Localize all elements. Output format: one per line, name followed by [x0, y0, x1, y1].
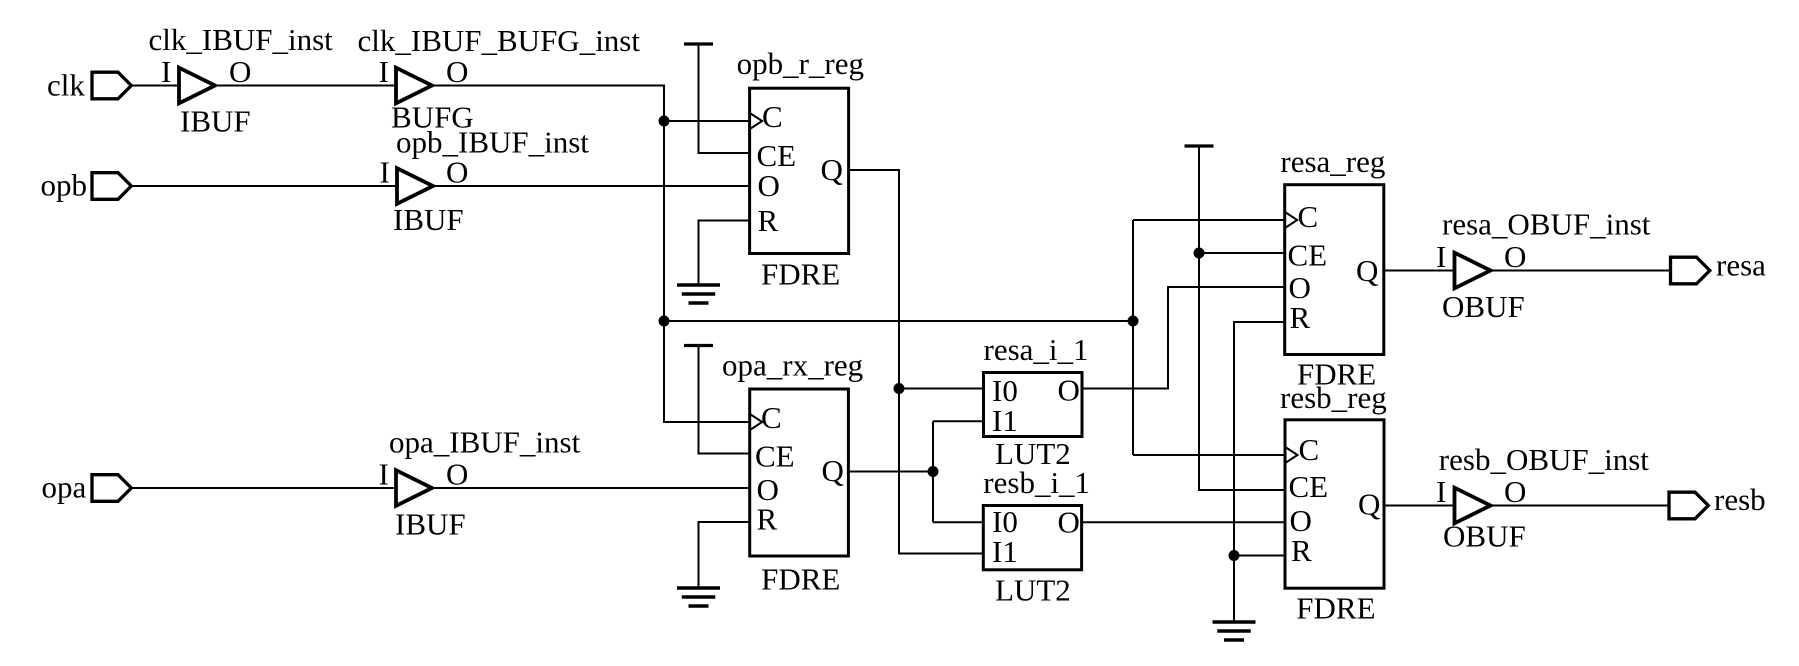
flip-flop resa_reg (FDRE) — [1280, 144, 1385, 392]
svg-text:O: O — [446, 457, 468, 492]
junction opb_r net — [894, 383, 905, 394]
wire opa_rx branch to resb_i_1 I0 — [933, 521, 983, 523]
svg-text:resa_reg: resa_reg — [1280, 144, 1385, 179]
svg-text:resa_OBUF_inst: resa_OBUF_inst — [1442, 207, 1651, 242]
output port resb — [1669, 482, 1766, 519]
svg-text:resa: resa — [1716, 248, 1766, 283]
svg-text:opa: opa — [42, 470, 87, 505]
svg-text:opa_IBUF_inst: opa_IBUF_inst — [389, 425, 581, 460]
svg-text:O: O — [1504, 239, 1526, 274]
svg-text:C: C — [762, 99, 783, 134]
svg-text:C: C — [1299, 432, 1320, 467]
svg-text:IBUF: IBUF — [393, 202, 464, 237]
svg-text:IBUF: IBUF — [180, 104, 251, 139]
svg-text:I: I — [161, 54, 171, 89]
svg-text:clk_IBUF_BUFG_inst: clk_IBUF_BUFG_inst — [358, 23, 641, 58]
svg-text:opb_r_reg: opb_r_reg — [737, 46, 864, 81]
input port opa — [42, 470, 132, 505]
svg-text:I: I — [379, 54, 389, 89]
wire clk_IBUF_BUFG net trunk — [432, 86, 750, 423]
svg-text:O: O — [229, 54, 251, 89]
ground for opa_rx_reg R — [677, 522, 750, 606]
svg-text:R: R — [1291, 533, 1312, 568]
LUT resb_i_1 (LUT2) — [983, 465, 1090, 608]
flip-flop resb_reg (FDRE) — [1280, 380, 1387, 625]
flip-flop opa_rx_reg (FDRE) — [722, 348, 863, 597]
junction clk net at opb_r_reg C branch — [659, 116, 670, 127]
svg-text:resa_i_1: resa_i_1 — [984, 332, 1089, 367]
wire resa_OBUF net — [1491, 270, 1671, 272]
power VCC for opa_rx_reg CE — [684, 346, 750, 454]
wire clk vertical right — [1132, 220, 1134, 455]
wire resb_i_1 O to resb_reg O — [1082, 521, 1285, 523]
input port clk — [47, 68, 131, 103]
svg-text:I: I — [1436, 474, 1446, 509]
svg-text:O: O — [1504, 474, 1526, 509]
wire clk_IBUF net — [215, 85, 396, 87]
svg-text:CE: CE — [1288, 238, 1328, 273]
svg-text:FDRE: FDRE — [1296, 590, 1375, 625]
wire to resb_reg C — [1133, 454, 1285, 456]
wire clk horizontal branch — [664, 320, 1133, 322]
svg-text:Q: Q — [822, 453, 844, 488]
junction opa_rx net — [928, 466, 939, 477]
svg-text:OBUF: OBUF — [1443, 519, 1526, 554]
junction clk net mid — [659, 316, 670, 327]
svg-text:OBUF: OBUF — [1442, 289, 1525, 324]
buffer opa_IBUF_inst (IBUF) — [379, 425, 581, 542]
buffer opb_IBUF_inst (IBUF) — [380, 124, 590, 237]
svg-text:I1: I1 — [992, 403, 1018, 438]
wire resb_OBUF net — [1491, 505, 1670, 507]
svg-text:CE: CE — [1289, 469, 1329, 504]
svg-text:O: O — [446, 54, 468, 89]
wire ground branch to resb_reg R — [1234, 555, 1285, 557]
wire opa_rx branch to resa_i_1 I1 — [933, 420, 984, 422]
output port resa — [1671, 248, 1767, 284]
wire to resa_reg C — [1133, 219, 1285, 221]
svg-text:R: R — [757, 502, 778, 537]
svg-text:LUT2: LUT2 — [995, 573, 1071, 608]
svg-text:opa_rx_reg: opa_rx_reg — [722, 348, 863, 383]
svg-text:resb_i_1: resb_i_1 — [983, 465, 1090, 500]
junction VCC net — [1194, 248, 1205, 259]
svg-text:O: O — [758, 168, 780, 203]
input port opb — [41, 168, 132, 203]
svg-text:I: I — [379, 457, 389, 492]
svg-text:resb: resb — [1714, 482, 1766, 517]
wire clk port to IBUF — [131, 85, 180, 87]
svg-text:R: R — [1290, 300, 1311, 335]
wire opa_rx net — [848, 421, 933, 522]
wire VCC branch to resa_reg CE — [1199, 252, 1285, 254]
ground net for resa_reg and resb_reg R — [1213, 322, 1285, 640]
wire branch to opb_r_reg C — [664, 120, 750, 122]
svg-text:O: O — [1058, 505, 1080, 540]
svg-text:I: I — [380, 155, 390, 190]
buffer clk_IBUF_inst (IBUF) — [149, 22, 334, 139]
buffer resa_OBUF_inst (OBUF) — [1436, 207, 1651, 325]
wire opb_IBUF net — [433, 185, 750, 187]
buffer clk_IBUF_BUFG_inst (BUFG) — [358, 23, 641, 135]
svg-text:opb_IBUF_inst: opb_IBUF_inst — [396, 124, 589, 159]
svg-text:R: R — [758, 203, 779, 238]
svg-text:C: C — [761, 400, 782, 435]
svg-text:Q: Q — [1356, 253, 1378, 288]
wire opb_r net — [849, 170, 984, 554]
wire opb port to IBUF — [131, 185, 398, 187]
junction clk net right — [1128, 316, 1139, 327]
flip-flop opb_r_reg (FDRE) — [737, 46, 864, 291]
wire opa port to IBUF — [131, 487, 397, 489]
wire opa_IBUF net — [432, 487, 750, 489]
svg-text:clk_IBUF_inst: clk_IBUF_inst — [149, 22, 334, 57]
svg-text:clk: clk — [47, 68, 85, 103]
svg-text:resb_OBUF_inst: resb_OBUF_inst — [1439, 442, 1650, 477]
svg-text:IBUF: IBUF — [395, 507, 466, 542]
power VCC for opb_r_reg CE — [684, 44, 750, 153]
svg-text:FDRE: FDRE — [761, 561, 840, 596]
junction ground net — [1229, 550, 1240, 561]
wire resb_reg Q to OBUF — [1384, 505, 1455, 507]
svg-text:I: I — [1436, 239, 1446, 274]
svg-text:C: C — [1298, 199, 1319, 234]
svg-text:resb_reg: resb_reg — [1280, 380, 1387, 415]
svg-text:opb: opb — [41, 168, 88, 203]
svg-text:Q: Q — [1358, 487, 1380, 522]
buffer resb_OBUF_inst (OBUF) — [1436, 442, 1649, 554]
LUT resa_i_1 (LUT2) — [984, 332, 1089, 471]
ground for opb_r_reg R — [677, 221, 750, 304]
svg-text:CE: CE — [755, 439, 795, 474]
svg-text:FDRE: FDRE — [761, 256, 840, 291]
svg-text:Q: Q — [821, 152, 843, 187]
svg-text:I1: I1 — [992, 534, 1018, 569]
svg-text:O: O — [446, 155, 468, 190]
wire resa_reg Q to OBUF — [1384, 270, 1455, 272]
wire opb_r branch to resa_i_1 I0 — [899, 388, 984, 390]
svg-text:O: O — [1058, 373, 1080, 408]
power VCC for resa_reg and resb_reg CE — [1185, 146, 1286, 490]
wire resa_i_1 O to resa_reg O — [1082, 287, 1285, 389]
